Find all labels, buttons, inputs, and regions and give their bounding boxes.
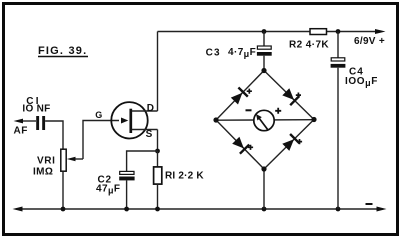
wire junction to C2 <box>127 151 158 171</box>
wire bridge bottom to ground rail <box>263 169 265 209</box>
title FIG. 39. <box>38 45 88 57</box>
resistor R1 <box>154 151 205 184</box>
wire drain to top rail <box>157 32 159 112</box>
node bridge right <box>311 117 316 122</box>
node rail junction VR1 <box>61 207 66 212</box>
wire VR1 wiper to gate <box>83 121 119 160</box>
top rail <box>158 29 386 47</box>
wire top rail to C3 <box>263 32 265 47</box>
svg-text:S: S <box>146 129 153 140</box>
node bridge left <box>213 117 218 122</box>
wire bridge horizontal to meter <box>216 119 314 122</box>
svg-text:IO NF: IO NF <box>22 104 50 115</box>
meter M1 <box>246 108 282 131</box>
svg-text:RI 2·2 K: RI 2·2 K <box>165 170 204 181</box>
node source junction <box>155 149 160 154</box>
node bridge top <box>261 68 266 73</box>
diode D2 (top-right) <box>282 88 301 105</box>
node rail junction R1 <box>155 207 160 212</box>
svg-text:R2 4·7K: R2 4·7K <box>289 40 329 51</box>
capacitor C2 <box>96 171 135 195</box>
node rail junction C2 <box>124 207 129 212</box>
svg-text:4·7μF: 4·7μF <box>228 47 256 59</box>
wire bridge branch bottom-right <box>264 120 314 170</box>
capacitor C3 <box>206 46 272 59</box>
wire C1 to VR1 <box>45 121 63 149</box>
svg-text:AF: AF <box>14 126 28 137</box>
diode D3 (bottom-left) <box>232 137 253 154</box>
svg-text:IMΩ: IMΩ <box>33 167 53 178</box>
wire VR1 bottom to ground rail <box>62 172 64 210</box>
node top rail junction C4 <box>336 29 341 34</box>
wire bridge branch left-top <box>216 71 264 121</box>
wire C3 to bridge top <box>263 56 265 71</box>
svg-text:D: D <box>147 103 154 114</box>
wire C2 to ground rail <box>126 180 128 209</box>
svg-text:FIG. 39.: FIG. 39. <box>38 45 87 57</box>
diode D4 (bottom-right) <box>282 134 302 151</box>
svg-text:6/9V +: 6/9V + <box>354 36 385 47</box>
wire bridge branch left-bottom <box>216 120 264 169</box>
wire C4 to ground rail <box>337 68 339 209</box>
node top rail junction C3 <box>262 29 267 34</box>
node rail junction C4 <box>336 207 341 212</box>
svg-text:VRI: VRI <box>37 156 55 167</box>
node rail junction bridge <box>262 207 267 212</box>
svg-text:G: G <box>95 110 102 120</box>
capacitor C4 <box>331 58 378 88</box>
wire bridge branch top-right <box>264 71 314 120</box>
potentiometer VR1 <box>33 149 83 177</box>
ground rail (bottom) <box>13 203 387 212</box>
svg-text:47μF: 47μF <box>96 183 120 195</box>
transistor Q1 (FET) <box>95 102 157 140</box>
node bridge bottom <box>261 166 266 171</box>
diode D1 (top-left) <box>231 88 252 105</box>
svg-text:C3: C3 <box>206 47 221 58</box>
wire source down <box>157 130 159 152</box>
capacitor C1 <box>22 96 50 130</box>
wire R1 to ground rail <box>157 184 159 209</box>
resistor R2 <box>289 29 329 51</box>
svg-text:IOOμF: IOOμF <box>345 76 378 88</box>
wire C4 from top rail <box>337 32 339 59</box>
node AF input arrow <box>14 119 37 137</box>
